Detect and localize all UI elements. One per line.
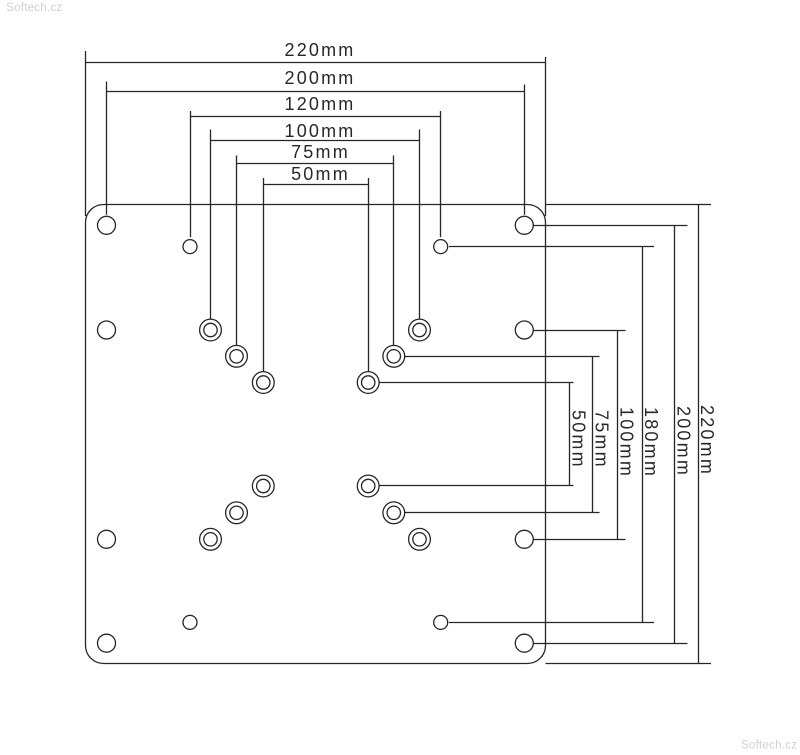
svg-text:75mm: 75mm: [592, 410, 612, 469]
svg-text:200mm: 200mm: [674, 406, 694, 477]
svg-text:220mm: 220mm: [697, 405, 717, 476]
svg-text:50mm: 50mm: [291, 164, 350, 184]
svg-text:Softech.cz: Softech.cz: [6, 2, 62, 14]
svg-text:200mm: 200mm: [284, 68, 355, 88]
svg-text:50mm: 50mm: [569, 410, 589, 469]
svg-text:100mm: 100mm: [284, 121, 355, 141]
svg-text:75mm: 75mm: [291, 142, 350, 162]
svg-text:100mm: 100mm: [617, 407, 637, 478]
svg-text:220mm: 220mm: [284, 40, 355, 60]
svg-text:Softech.cz: Softech.cz: [741, 740, 797, 751]
svg-text:120mm: 120mm: [284, 94, 355, 114]
svg-text:180mm: 180mm: [641, 407, 661, 478]
